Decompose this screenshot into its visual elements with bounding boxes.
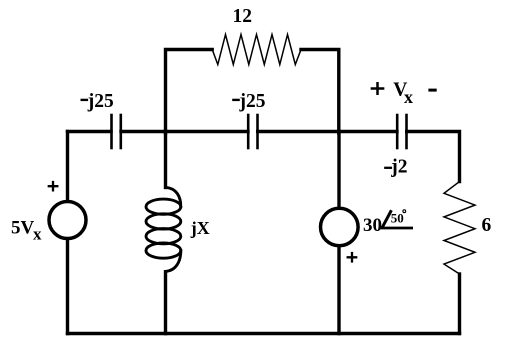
capacitor -j25 (middle)	[248, 115, 257, 148]
label 6	[482, 215, 492, 236]
label +Vx- (polarity marks over capacitor -j2)	[372, 79, 435, 107]
source 5Vx (dependent voltage source circle)	[49, 202, 86, 239]
wire: capacitor -j25 left to node B	[121, 130, 248, 133]
label + (polarity of source 30∠50°)	[348, 253, 357, 262]
resistor 6 (zigzag)	[444, 182, 475, 275]
wire: capacitor -j2 to right top corner and down to resistor 6	[407, 132, 460, 182]
svg-text:j25: j25	[239, 91, 266, 112]
svg-text:6: 6	[482, 215, 492, 236]
label 30∠50°	[363, 210, 412, 236]
wire: left branch top (node A horizontal to capacitor -j25 left)	[68, 130, 112, 133]
svg-text:5V: 5V	[11, 218, 35, 239]
wire: middle riser from node B up and over to resistor 12	[166, 50, 213, 134]
wire: bottom rail	[68, 332, 460, 335]
label + (polarity of source 5Vx)	[49, 182, 58, 190]
wire: resistor 6 bottom lead to bottom-right corner	[458, 274, 461, 334]
inductor jX (coil of 4 loops)	[146, 187, 181, 271]
svg-text:50: 50	[391, 211, 404, 226]
wire: resistor 12 right lead down to node C	[301, 50, 339, 134]
wire: inductor jX to bottom wire	[164, 272, 167, 334]
svg-text:30: 30	[363, 215, 382, 236]
label -j25 (middle)	[233, 91, 265, 112]
capacitor -j25 (left)	[112, 115, 121, 148]
label jX	[190, 218, 210, 238]
svg-text:jX: jX	[190, 218, 210, 238]
source 30∠50° (voltage source circle)	[321, 208, 359, 246]
label -j2	[385, 157, 407, 178]
wire: node B down to inductor jX	[164, 132, 167, 188]
wire: source 5Vx to bottom-left corner	[66, 240, 69, 334]
capacitor -j2	[397, 115, 406, 148]
svg-text:x: x	[33, 225, 42, 244]
svg-text:12: 12	[232, 6, 252, 27]
wire: node C down to source 30∠50°	[337, 132, 340, 207]
label 5Vx	[11, 218, 42, 244]
resistor 12 (zigzag)	[212, 35, 301, 65]
svg-text:j25: j25	[87, 91, 114, 112]
svg-text:j2: j2	[390, 157, 407, 178]
wire: source 30∠50° to bottom wire	[337, 248, 340, 334]
svg-text:x: x	[404, 87, 413, 107]
label -j25 (left)	[82, 91, 114, 112]
label 12	[232, 6, 252, 27]
wire: left branch vertical (node A down to source 5Vx)	[66, 132, 69, 201]
wire: capacitor -j25 middle to node C	[258, 130, 397, 133]
